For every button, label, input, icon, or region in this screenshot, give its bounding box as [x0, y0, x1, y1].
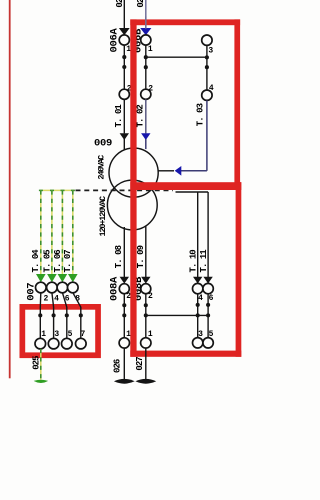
green shield bar 025 — [35, 380, 47, 383]
svg-text:T. 04: T. 04 — [31, 249, 41, 273]
svg-text:020: 020 — [115, 0, 125, 8]
pin number 1 — [126, 45, 131, 54]
label 026 — [113, 359, 123, 373]
svg-text:009: 009 — [94, 138, 112, 150]
green arrow T.04 — [36, 274, 46, 282]
svg-text:1: 1 — [41, 330, 46, 339]
pin number 2 — [148, 292, 153, 301]
svg-text:1: 1 — [148, 45, 153, 54]
junction F1 — [196, 303, 200, 307]
pin number 5 — [209, 330, 214, 339]
red highlight middle bar — [130, 182, 241, 190]
svg-text:T. 07: T. 07 — [63, 250, 73, 273]
pin number 4 — [209, 84, 214, 93]
fan wire 007.8 to pin 7 — [73, 293, 86, 349]
ground bar 027 — [135, 379, 156, 384]
green-yellow dashed wire T.05 — [51, 190, 53, 274]
label T.06 — [53, 250, 63, 273]
terminal 006A pin 1 circle — [119, 35, 129, 45]
pin number 1 — [148, 45, 153, 54]
svg-text:2: 2 — [43, 294, 48, 303]
pin number 4 — [198, 294, 203, 303]
terminal pin 3 circle — [202, 35, 212, 45]
terminal 008B pin 1 circle — [141, 338, 151, 348]
blue arrow pointing left at transformer — [175, 166, 182, 176]
wire 008B between pins — [145, 294, 147, 338]
pin number 2 — [126, 292, 131, 301]
fan wire 007.2 to pin 1 — [35, 293, 46, 349]
arrow T.11 — [203, 277, 212, 284]
red highlight box top edge — [130, 19, 240, 25]
arrow T.10 — [193, 277, 202, 284]
junction G2 — [206, 313, 210, 317]
wire T.10 vertical — [197, 192, 199, 277]
label 027 — [135, 357, 145, 371]
wire T.02 (slate) — [145, 99, 147, 133]
label 007 — [26, 283, 38, 301]
arrow T.01 into transformer — [120, 133, 129, 140]
pin number 2 — [43, 294, 48, 303]
junction A1 — [122, 55, 126, 59]
green arrow T.06 — [58, 274, 68, 282]
pin number 3 — [54, 330, 59, 339]
pin number 3 — [198, 330, 203, 339]
svg-text:026: 026 — [113, 359, 123, 373]
terminal pin 6 circle — [203, 283, 213, 293]
pin number 8 — [75, 294, 80, 303]
svg-text:2: 2 — [148, 85, 153, 94]
wire T.02 stub (blue) — [145, 139, 147, 149]
ground bar 026 — [114, 379, 135, 384]
junction B1 — [144, 55, 148, 59]
label 006B — [132, 28, 144, 53]
svg-text:240VAC: 240VAC — [97, 155, 107, 180]
wire T.03 vertical (blue) — [206, 100, 208, 170]
arrow into terminal 006A pin 1 — [119, 28, 130, 35]
svg-text:4: 4 — [209, 84, 214, 93]
label 025 — [31, 356, 41, 370]
label 006A — [109, 27, 121, 52]
wire B between pins — [145, 45, 147, 89]
wire 022 label — [136, 0, 146, 8]
green arrow T.05 — [47, 274, 57, 282]
wire B top segment (slate) — [145, 0, 147, 29]
label 008A — [109, 276, 121, 301]
wire pin4 to pin3 — [197, 294, 199, 338]
wire T.09 from transformer — [145, 226, 147, 278]
svg-text:120+120VAC: 120+120VAC — [98, 196, 108, 237]
wire B stub over red — [145, 17, 147, 29]
terminal 008A pin 1 circle — [119, 338, 129, 348]
svg-text:3: 3 — [54, 330, 59, 339]
wire 027 over red — [145, 348, 147, 380]
svg-text:3: 3 — [208, 46, 213, 55]
label T.03 — [196, 103, 206, 126]
transformer U1 primary circle — [109, 148, 158, 197]
blue arrow into terminal 006B pin 1 — [140, 28, 151, 35]
junction D1 — [122, 303, 126, 307]
wire T.01 stub — [123, 139, 125, 150]
svg-text:006A: 006A — [109, 27, 121, 52]
svg-text:025: 025 — [31, 356, 41, 370]
black stub from transformer to arrow — [158, 170, 174, 172]
terminal 007 pin 2 circle — [36, 282, 47, 293]
svg-text:2: 2 — [148, 292, 153, 301]
wire A top segment — [123, 0, 125, 29]
svg-text:4: 4 — [54, 294, 59, 303]
junction E2 — [144, 313, 148, 317]
junction E1 — [144, 303, 148, 307]
green-yellow dashed wire T.06 — [61, 190, 63, 274]
label T.01 — [114, 104, 124, 128]
terminal pin 4 circle — [193, 283, 203, 293]
green-yellow dashed wire T.04 — [40, 190, 42, 274]
wire T.08 from transformer — [123, 227, 125, 277]
red highlight box around terminals 1,3,5,7 — [22, 307, 98, 355]
pin number 4 — [54, 294, 59, 303]
pin number 1 — [41, 330, 46, 339]
label T.04 — [31, 249, 41, 273]
svg-text:T. 02: T. 02 — [136, 105, 146, 128]
svg-text:027: 027 — [135, 357, 145, 371]
junction F2 — [196, 313, 200, 317]
green-yellow shield horizontal dashed wire — [39, 189, 75, 191]
wire A between pins — [123, 45, 125, 89]
svg-text:T. 09: T. 09 — [136, 245, 146, 268]
svg-text:1: 1 — [148, 330, 153, 339]
svg-text:T. 01: T. 01 — [114, 104, 124, 128]
label 120+120VAC — [98, 196, 108, 237]
pin number 5 — [68, 330, 73, 339]
dashed shield centerline — [76, 189, 174, 191]
terminal 008B pin 2 circle — [141, 284, 151, 294]
wire 020 label — [115, 0, 125, 8]
svg-text:007: 007 — [26, 283, 38, 301]
svg-text:7: 7 — [80, 330, 85, 339]
junction C2 — [205, 65, 209, 69]
wire T.03 horizontal (blue) — [181, 170, 207, 172]
terminal pin 3 circle — [193, 338, 203, 348]
red highlight box bottom edge — [130, 351, 241, 357]
label T.09 — [136, 245, 146, 268]
svg-text:5: 5 — [68, 330, 73, 339]
junction C1 — [205, 55, 209, 59]
pin number 2 — [148, 85, 153, 94]
red highlight box top (left edge through transformer) — [130, 19, 136, 356]
svg-text:T. 06: T. 06 — [53, 250, 63, 273]
terminal pin 5 circle — [203, 338, 213, 348]
svg-text:3: 3 — [198, 330, 203, 339]
terminal 006B pin 1 circle — [141, 35, 151, 45]
terminal 007 pin 8 circle — [68, 282, 79, 293]
thin red revision line left — [9, 0, 11, 378]
label 008B — [133, 276, 145, 301]
shield takeoff wire — [176, 191, 209, 193]
terminal 006A pin 2 circle — [119, 89, 129, 99]
svg-text:T. 11: T. 11 — [199, 249, 209, 273]
label T.10 — [189, 250, 199, 273]
wire T.01 — [123, 99, 125, 133]
wire 008A between pins — [123, 294, 125, 338]
svg-text:T. 08: T. 08 — [114, 245, 124, 268]
wire 026 — [123, 348, 125, 380]
terminal 007 pin 6 circle — [57, 282, 68, 293]
junction D2 — [122, 313, 126, 317]
pin number 6 — [209, 294, 214, 303]
pin number 3 — [208, 46, 213, 55]
wire C between pins — [206, 45, 208, 90]
label T.11 — [199, 249, 209, 273]
pin number 1 — [148, 330, 153, 339]
junction G1 — [206, 303, 210, 307]
svg-text:4: 4 — [198, 294, 203, 303]
label T.07 — [63, 250, 73, 273]
pin number 2 — [127, 85, 132, 94]
terminal pin 4 circle — [202, 90, 212, 100]
svg-text:022: 022 — [136, 0, 146, 8]
green arrow T.07 — [68, 274, 78, 282]
terminal 006B pin 2 circle — [141, 89, 151, 99]
svg-text:T. 05: T. 05 — [42, 250, 52, 273]
label 009 — [94, 138, 112, 150]
blue arrow T.02 into transformer — [141, 133, 150, 140]
wire T.11 vertical — [207, 192, 209, 277]
wire pin6 to pin5 — [207, 294, 209, 338]
junction B2 — [144, 65, 148, 69]
svg-text:5: 5 — [209, 330, 214, 339]
label T.05 — [42, 250, 52, 273]
svg-text:T. 10: T. 10 — [189, 250, 199, 273]
red highlight box top right edge — [234, 19, 240, 190]
label 240VAC — [97, 155, 107, 180]
green-yellow dashed wire 025 — [40, 349, 42, 380]
label T.02 — [136, 105, 146, 128]
connector wire E to G — [146, 314, 208, 316]
svg-text:6: 6 — [209, 294, 214, 303]
transformer U1 secondary circle — [107, 180, 157, 230]
fan wire 007.4 to pin 3 — [48, 293, 59, 349]
arrow T.09 — [141, 277, 150, 284]
svg-text:T. 03: T. 03 — [196, 103, 206, 126]
terminal 008A pin 2 circle — [119, 284, 129, 294]
pin number 7 — [80, 330, 85, 339]
green-yellow dashed wire T.07 — [72, 190, 74, 274]
label T.08 — [114, 245, 124, 268]
arrow T.08 — [120, 277, 129, 284]
pin number 6 — [65, 294, 70, 303]
terminal 007 pin 4 circle — [47, 282, 58, 293]
junction A2 — [122, 65, 126, 69]
pin number 1 — [126, 330, 131, 339]
red highlight box bottom right edge — [236, 182, 242, 357]
fan wire 007.6 to pin 5 — [62, 293, 73, 349]
connector wire B to C — [146, 56, 207, 58]
